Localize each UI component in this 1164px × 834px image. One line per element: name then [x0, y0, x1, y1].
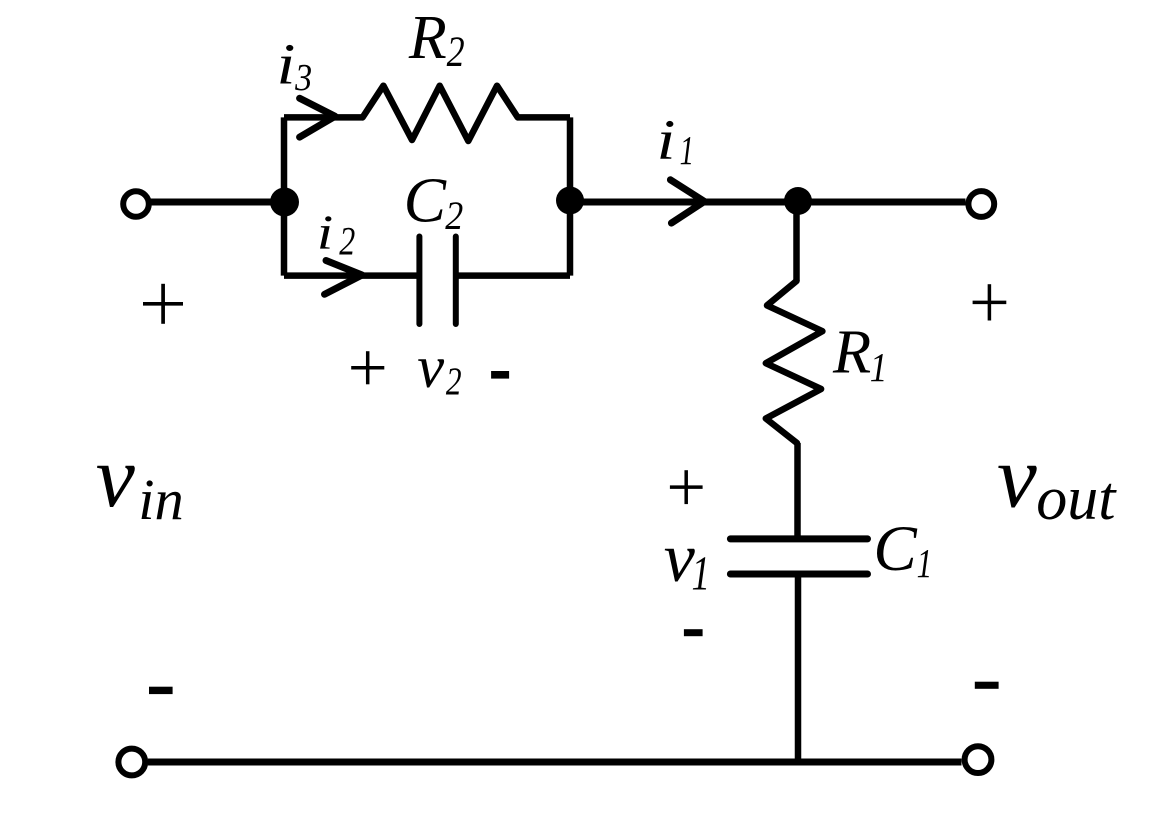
wire C2 branch right	[456, 272, 570, 279]
wire R1 to C1	[794, 443, 801, 539]
svg-text:3: 3	[294, 57, 312, 99]
wire input feed	[150, 199, 284, 206]
svg-text:v: v	[997, 428, 1037, 527]
plus sign v1	[670, 470, 703, 504]
arrow i1	[670, 180, 704, 223]
svg-text:1: 1	[680, 127, 694, 173]
label R2	[408, 4, 465, 76]
svg-text:2: 2	[445, 193, 463, 238]
wire C1 to bottom rail	[795, 574, 802, 762]
label vin	[96, 429, 184, 532]
svg-text:1: 1	[692, 547, 711, 600]
svg-text:out: out	[1036, 465, 1117, 533]
resistor R2	[363, 86, 518, 141]
minus sign vin	[149, 687, 173, 694]
minus sign v1	[684, 629, 703, 636]
wire output rail	[570, 199, 966, 206]
terminal output top (open circle)	[968, 191, 994, 217]
wire right loop vertical	[567, 117, 574, 275]
svg-text:2: 2	[446, 360, 462, 403]
svg-text:2: 2	[447, 29, 465, 76]
label i2	[317, 205, 355, 264]
svg-text:C: C	[873, 513, 917, 585]
svg-text:i: i	[657, 109, 676, 172]
terminal output bottom (open circle)	[965, 746, 992, 773]
svg-text:i: i	[277, 31, 296, 96]
resistor R1	[766, 281, 823, 443]
node B parallel junction	[556, 187, 584, 215]
label C2	[404, 165, 464, 239]
capacitor C1	[730, 539, 867, 574]
svg-text:1: 1	[917, 540, 933, 586]
capacitor C2	[419, 237, 455, 325]
wire left loop vertical	[281, 117, 288, 275]
svg-text:v: v	[96, 429, 136, 526]
label R1	[832, 317, 887, 391]
svg-text:R: R	[408, 4, 447, 72]
arrow i2	[325, 261, 363, 295]
wire C2 branch left	[284, 272, 417, 279]
plus sign vout	[973, 284, 1007, 320]
label v1	[664, 520, 710, 600]
terminal input bottom (open circle)	[118, 749, 145, 776]
svg-text:C: C	[404, 165, 447, 236]
wire top branch right	[518, 114, 570, 121]
svg-text:1: 1	[870, 344, 888, 390]
node C output junction	[784, 187, 812, 215]
arrow i3	[300, 98, 335, 137]
wire R1 top stub	[793, 202, 800, 281]
terminal input top (open circle)	[123, 191, 149, 217]
wire top branch left	[284, 114, 363, 121]
svg-text:2: 2	[339, 218, 355, 263]
label v2	[417, 334, 461, 403]
svg-text:v: v	[417, 334, 444, 401]
svg-text:in: in	[138, 467, 184, 532]
label i3	[277, 31, 313, 99]
label i1	[657, 109, 695, 173]
minus sign v2	[491, 371, 509, 379]
node A input junction	[270, 188, 299, 217]
label C1	[873, 513, 932, 586]
minus sign vout	[975, 682, 999, 689]
plus sign vin	[143, 284, 183, 324]
wire bottom rail	[148, 759, 962, 766]
svg-text:R: R	[832, 317, 871, 387]
svg-text:i: i	[317, 205, 334, 260]
label vout	[997, 428, 1117, 533]
plus sign v2	[351, 351, 384, 384]
